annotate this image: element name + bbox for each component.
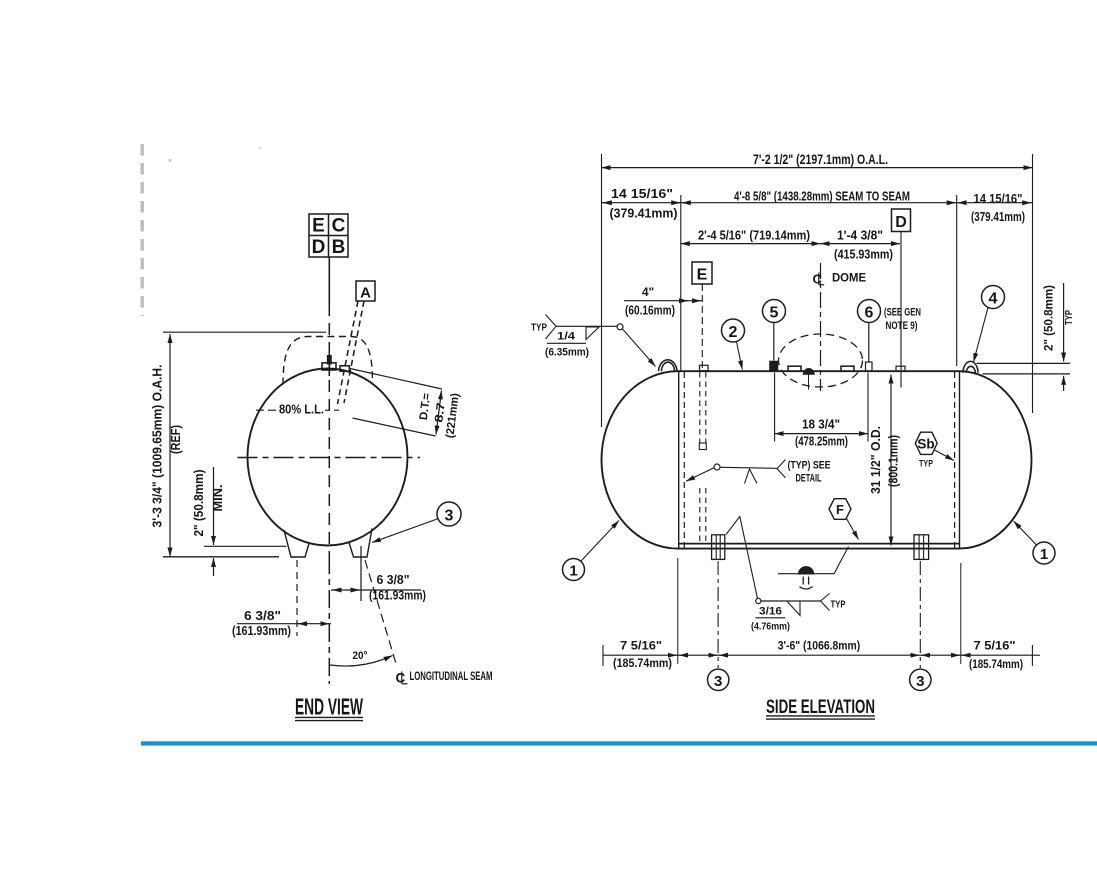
svg-text:3/16: 3/16 bbox=[759, 606, 782, 618]
2 inch TYP lines right side bbox=[977, 362, 1071, 364]
O.A.L. dimension line bbox=[602, 167, 1033, 169]
4 inch dimension bbox=[624, 300, 702, 302]
left leg (side view) bbox=[712, 535, 725, 560]
callout circle 5 bbox=[763, 300, 786, 323]
svg-text:1/4: 1/4 bbox=[557, 331, 576, 343]
svg-text:DOME: DOME bbox=[832, 271, 866, 285]
svg-text:3: 3 bbox=[916, 673, 924, 690]
svg-text:C: C bbox=[332, 216, 346, 237]
F hexagon symbol bbox=[829, 499, 851, 520]
svg-text:D.T.=: D.T.= bbox=[418, 392, 433, 421]
callout circle 2 bbox=[722, 319, 745, 342]
callout box A bbox=[356, 281, 375, 301]
svg-text:18 3/4": 18 3/4" bbox=[802, 418, 840, 432]
svg-text:E: E bbox=[697, 267, 708, 284]
callout circle 3 bottom left bbox=[708, 669, 729, 690]
svg-text:(4.76mm): (4.76mm) bbox=[751, 621, 790, 633]
svg-text:2'-4 5/16" (719.14mm): 2'-4 5/16" (719.14mm) bbox=[698, 229, 810, 243]
leader lines from A (dip tube, dashed) bbox=[338, 301, 359, 404]
blue divider bar bbox=[141, 741, 1097, 745]
20 degree arc bbox=[330, 656, 393, 667]
svg-text:1'-4 3/8": 1'-4 3/8" bbox=[837, 229, 883, 243]
svg-text:(TYP) SEE: (TYP) SEE bbox=[788, 460, 831, 472]
svg-text:6 3/8": 6 3/8" bbox=[244, 609, 281, 623]
right leg (side view) bbox=[914, 535, 929, 560]
1'-4 3/8 dimension bbox=[821, 243, 901, 245]
drain assembly under tank bbox=[778, 573, 834, 575]
scan artifact faint dot bbox=[168, 159, 171, 162]
svg-text:(800.1mm): (800.1mm) bbox=[887, 435, 901, 487]
horizontal centerline of circle bbox=[238, 457, 421, 459]
svg-text:TYP: TYP bbox=[1063, 310, 1075, 325]
O.A.H. top extension line bbox=[163, 331, 326, 333]
svg-text:TYP: TYP bbox=[919, 459, 933, 470]
right leg extension line bbox=[360, 546, 362, 601]
left seam extension line bbox=[680, 195, 682, 371]
dip tube hidden lines lower bbox=[699, 488, 701, 542]
svg-text:14 15/16": 14 15/16" bbox=[611, 187, 673, 201]
TYP SEE DETAIL leader bbox=[714, 464, 720, 470]
svg-text:(478.25mm): (478.25mm) bbox=[795, 435, 848, 449]
tank top line bbox=[678, 370, 959, 372]
svg-text:2" (50.8mm): 2" (50.8mm) bbox=[192, 470, 206, 537]
svg-text:(161.93mm): (161.93mm) bbox=[232, 624, 291, 638]
svg-text:END VIEW: END VIEW bbox=[295, 694, 363, 720]
left leg centerline dashed bbox=[296, 560, 298, 636]
D.T. dimension diagonal lines bbox=[350, 369, 442, 390]
2 inch min dimension arrows bbox=[213, 467, 215, 545]
svg-text:(185.74mm): (185.74mm) bbox=[613, 656, 672, 670]
svg-text:2" (50.8mm): 2" (50.8mm) bbox=[1042, 285, 1056, 351]
svg-text:2: 2 bbox=[729, 324, 738, 341]
bottom dimension line bbox=[603, 654, 1040, 656]
callout circle 1 left bbox=[563, 559, 585, 581]
svg-text:(185.74mm): (185.74mm) bbox=[969, 657, 1023, 671]
svg-text:B: B bbox=[332, 237, 346, 258]
svg-text:(415.93mm): (415.93mm) bbox=[834, 248, 893, 262]
svg-text:(60.16mm): (60.16mm) bbox=[625, 304, 675, 318]
valve fitting right on tank top bbox=[340, 366, 349, 371]
fitting 5 (dark) bbox=[770, 362, 778, 372]
left head bbox=[602, 371, 679, 548]
svg-text:TYP: TYP bbox=[831, 599, 846, 611]
D leader line bbox=[900, 232, 902, 372]
svg-text:6: 6 bbox=[865, 305, 874, 322]
right leg (end view) bbox=[349, 529, 372, 558]
svg-text:6 3/8": 6 3/8" bbox=[377, 573, 410, 587]
svg-text:(379.41mm): (379.41mm) bbox=[610, 207, 678, 221]
right seam extension line bbox=[956, 195, 958, 366]
tank bottom extension line bbox=[204, 545, 287, 547]
callout circle 6 bbox=[858, 300, 881, 323]
leader from 3 to right leg bbox=[372, 519, 439, 543]
2'-4 5/16 dimension bbox=[681, 243, 821, 245]
callout box D bbox=[892, 209, 911, 232]
valve fitting left on tank top bbox=[322, 363, 336, 370]
svg-text:LONGITUDINAL SEAM: LONGITUDINAL SEAM bbox=[410, 669, 493, 683]
callout box E bbox=[692, 262, 712, 284]
svg-text:DETAIL: DETAIL bbox=[796, 473, 822, 485]
E dashed leader line bbox=[701, 284, 703, 371]
svg-text:14 15/16": 14 15/16" bbox=[974, 192, 1023, 206]
callout circle 4 bbox=[982, 286, 1005, 309]
left leg (end view) bbox=[284, 530, 309, 557]
identification letter grid box E C D B bbox=[309, 214, 348, 257]
coupling at E line bbox=[700, 365, 709, 370]
svg-text:3: 3 bbox=[445, 508, 454, 525]
svg-text:80% L.L.: 80% L.L. bbox=[279, 402, 324, 417]
svg-text:E: E bbox=[312, 216, 325, 237]
fitting 6 bbox=[866, 362, 873, 371]
svg-text:31 1/2" O.D.: 31 1/2" O.D. bbox=[869, 426, 883, 494]
dome dashed ellipse bbox=[779, 334, 863, 387]
svg-text:5: 5 bbox=[770, 305, 779, 322]
svg-text:3'-6" (1066.8mm): 3'-6" (1066.8mm) bbox=[778, 639, 861, 653]
dome cap fitting (dark) bbox=[804, 369, 815, 374]
svg-text:D: D bbox=[312, 237, 326, 258]
svg-text:3: 3 bbox=[714, 673, 722, 690]
3/16 weld leader polyline bbox=[726, 517, 758, 599]
svg-text:1: 1 bbox=[1040, 546, 1048, 563]
svg-text:4": 4" bbox=[642, 285, 654, 299]
O.A.H. vertical dimension line bbox=[169, 334, 171, 557]
svg-text:(221mm): (221mm) bbox=[444, 392, 461, 438]
longitudinal seam dashed line bbox=[365, 560, 397, 667]
left head seam line bbox=[678, 371, 680, 548]
Sb hexagon symbol bbox=[915, 432, 937, 454]
O.A.L. left extension line bbox=[601, 154, 603, 427]
right head projection dashed bbox=[954, 372, 956, 548]
svg-text:4'-8 5/8" (1438.28mm) SEAM TO: 4'-8 5/8" (1438.28mm) SEAM TO SEAM bbox=[734, 190, 910, 204]
svg-text:SIDE ELEVATION: SIDE ELEVATION bbox=[766, 696, 875, 718]
right 6 3/8 dimension bbox=[331, 589, 421, 591]
ground line bbox=[163, 556, 279, 558]
left 6 3/8 dimension bbox=[237, 623, 331, 625]
31 1/2 O.D. vertical dimension bbox=[890, 375, 892, 546]
svg-text:D: D bbox=[895, 214, 907, 231]
18 3/4 dimension bbox=[774, 373, 776, 442]
dip tube hidden lines upper bbox=[699, 372, 701, 443]
svg-text:A: A bbox=[360, 285, 371, 302]
callout circle 3 (end view) bbox=[437, 502, 461, 526]
bottom runner seam line bbox=[678, 543, 959, 545]
svg-text:7 5/16": 7 5/16" bbox=[620, 639, 662, 653]
tank bottom line bbox=[678, 548, 959, 550]
callout circle 1 right bbox=[1033, 542, 1055, 564]
tank shell (end view circle) bbox=[248, 369, 408, 546]
svg-text:7 5/16": 7 5/16" bbox=[974, 639, 1016, 653]
coupling at D line bbox=[896, 366, 905, 371]
vertical centerline below letter box bbox=[328, 257, 330, 304]
svg-text:(379.41mm): (379.41mm) bbox=[971, 210, 1025, 224]
valve fitting rect left of dome bbox=[788, 366, 801, 371]
svg-text:7'-2 1/2" (2197.1mm) O.A.L.: 7'-2 1/2" (2197.1mm) O.A.L. bbox=[753, 152, 888, 167]
right lifting lug bbox=[963, 361, 978, 372]
svg-text:(SEE GEN: (SEE GEN bbox=[884, 307, 921, 319]
svg-text:(REF): (REF) bbox=[169, 425, 183, 454]
seam-to-seam dimension line bbox=[602, 202, 1033, 204]
svg-text:Sb: Sb bbox=[917, 437, 934, 452]
scan artifact gray dashed margin line bbox=[140, 144, 143, 316]
callout circle 3 bottom right bbox=[910, 669, 931, 690]
leg centerlines dash-dot bbox=[717, 561, 719, 668]
svg-text:4: 4 bbox=[989, 291, 998, 308]
O.A.L. right extension line bbox=[1032, 154, 1034, 413]
svg-text:TYP: TYP bbox=[531, 322, 547, 334]
svg-text:F: F bbox=[836, 502, 844, 517]
80% liquid level dashes and text bbox=[256, 409, 277, 411]
dome centerline bbox=[820, 263, 822, 391]
svg-text:3'-3 3/4" (1009.65mm) O.A.H.: 3'-3 3/4" (1009.65mm) O.A.H. bbox=[151, 365, 165, 528]
svg-text:20°: 20° bbox=[353, 650, 368, 662]
left lifting lug bbox=[659, 360, 678, 371]
svg-text:(6.35mm): (6.35mm) bbox=[545, 347, 589, 359]
right head bbox=[959, 371, 1032, 548]
dome hood dashed outline bbox=[283, 337, 373, 385]
valve fitting rect right of dome bbox=[841, 366, 854, 371]
svg-text:1: 1 bbox=[569, 563, 577, 580]
left head projection dashed bbox=[683, 372, 685, 548]
valve stem bbox=[328, 356, 331, 364]
svg-text:NOTE 9): NOTE 9) bbox=[886, 320, 918, 332]
right head seam line bbox=[959, 371, 961, 548]
